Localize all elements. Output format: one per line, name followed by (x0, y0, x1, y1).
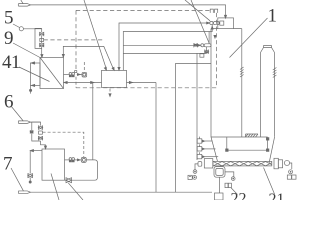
left motor circle (193, 170, 197, 174)
arrow into box A top (41, 55, 43, 58)
valve on burner 2 riser (205, 50, 209, 53)
valve V1 on vertical line (40, 32, 44, 36)
gearbox at discharge (225, 183, 231, 187)
wire box A bottom line y=82.5 (64, 82, 102, 84)
wire box C right to down leg (127, 82, 157, 84)
left recirculation line of box D (30, 150, 42, 174)
label 9 (4, 28, 14, 49)
burner 1 capsule (213, 22, 219, 25)
burner 2 circle (201, 44, 204, 47)
svg-text:9: 9 (4, 28, 14, 49)
arrow into box A bottom corner (64, 81, 67, 83)
bypass loop around valves (35, 28, 42, 48)
air drop to burner 2 (208, 32, 210, 44)
chimney left edge (260, 53, 262, 138)
instrument rounded box near box A (82, 72, 87, 77)
leader to cut label bottom b (68, 183, 83, 200)
hopper left slope (211, 137, 218, 161)
leader from top to burner 1 a (185, 0, 210, 21)
instrument rounded box at box D (81, 157, 86, 162)
pipe box A top to box C (bent) (63, 46, 114, 70)
flue passage inner duct (227, 137, 268, 150)
valve 6a (38, 126, 42, 130)
leader stub to top lens (21, 0, 23, 4)
arrow into box A top right (62, 54, 64, 57)
svg-text:6: 6 (4, 92, 14, 113)
branch line 4 to burner 2 riser (123, 52, 206, 54)
conveyor left bearing block (204, 159, 213, 168)
ash container box F (215, 193, 224, 200)
node circle 5 inlet (19, 27, 23, 31)
left gearbox pair (188, 175, 197, 179)
slag instrument 1 (197, 137, 212, 144)
leader to cut label bottom a (51, 174, 59, 201)
furnace bottom line (211, 136, 268, 138)
burner 1 inner block (220, 21, 224, 25)
arrow on box B top edge (31, 62, 34, 64)
valve on left line of box D (28, 174, 33, 183)
arrow pump to instrument (77, 159, 80, 161)
arrow into box C top from pipe (112, 67, 114, 70)
arrow riser1 into box C (118, 67, 120, 70)
leader from top edge to box C (84, 0, 106, 68)
corner block bottom right (266, 149, 269, 152)
wire valve column to box A top (41, 47, 43, 55)
nozzle lens 7 (18, 191, 30, 194)
motor circle at discharge (231, 177, 235, 181)
down leg x=154 (155, 83, 157, 193)
leader 6 (11, 106, 23, 121)
box D fuel tank (42, 149, 65, 180)
arrow on box B bottom edge (31, 84, 34, 86)
leader 5 (13, 24, 20, 28)
burner 1 circle (210, 21, 213, 24)
recirculation loop (72, 160, 98, 180)
box A heat exchanger (40, 58, 64, 89)
nozzle lens 6 (18, 121, 30, 124)
riser 1 from box C (119, 23, 209, 70)
box A diagonal (40, 58, 64, 89)
bypass loop on line 6 (32, 122, 41, 141)
right motor circle (289, 170, 293, 174)
svg-text:7: 7 (3, 154, 13, 175)
wire dashed vertical into furnace (216, 13, 218, 88)
svg-text:1: 1 (268, 6, 278, 27)
label 1 (268, 6, 278, 27)
leader 9 (13, 43, 40, 58)
wire top header y=5 (31, 5, 226, 16)
bypass valve (30, 131, 33, 134)
leader from top to burner 1 b (191, 0, 209, 44)
hatch on chimney right edge (273, 68, 277, 78)
box C (102, 70, 127, 87)
wire dashed branch y=40 (44, 39, 103, 41)
svg-text:5: 5 (4, 8, 14, 29)
chimney right edge (274, 53, 276, 137)
corner block bottom left (226, 149, 229, 152)
label 21 (269, 191, 285, 208)
conveyor trough (213, 161, 272, 166)
svg-text:41: 41 (2, 52, 20, 73)
pump on box A right line (69, 71, 77, 77)
hatch on furnace right wall (240, 67, 244, 77)
wire box D right y=160 (65, 159, 70, 161)
control box on line 6 (39, 131, 43, 134)
wire box E down (218, 177, 220, 193)
conveyor right bearing blocks (274, 158, 283, 169)
label 22 (231, 190, 247, 207)
valve V2 on vertical line (40, 43, 44, 47)
wire dashed control line y=10 (76, 9, 210, 11)
conveyor screw zigzag reverse (213, 162, 271, 166)
arrow on line 1 into burner (207, 22, 210, 24)
wire dashed below valve (75, 77, 77, 88)
wire dashed vertical x=78 (75, 10, 77, 70)
wire from lens 6 (31, 122, 41, 126)
leader 41 (19, 67, 50, 82)
conveyor left coupling capsule (198, 162, 202, 167)
arrow between pump and instrument (77, 74, 80, 76)
left motor elbow (195, 164, 198, 170)
pipe furnace left wall to bottom header (175, 64, 211, 193)
furnace upper box (218, 18, 234, 29)
wire dashed bottom control y=88.5 (76, 87, 217, 89)
wire dashed stub above instrument near box A (83, 62, 85, 72)
burner 2 capsule (204, 44, 211, 47)
label 7 (3, 154, 13, 175)
leader 21 (264, 168, 275, 195)
branch to motor cluster (225, 172, 234, 177)
label 6 (4, 92, 14, 113)
dashed drain below box C (109, 89, 111, 97)
chute right slope (269, 137, 275, 164)
arrow on that wire (129, 81, 132, 83)
wire into box D top (41, 141, 46, 147)
arrow leader into box C (104, 67, 106, 70)
chimney cap (261, 46, 275, 53)
wire from circle to valve column (23, 29, 41, 32)
valve on box D bottom line (65, 178, 72, 183)
box B (31, 63, 41, 85)
label 41 (2, 52, 20, 73)
wire junction down to fuel loop (92, 83, 94, 160)
wire between valves (41, 36, 43, 43)
arrow up on burner riser (211, 26, 213, 29)
branch line 3 to burner 2 (123, 44, 199, 46)
arrow junction y=82.5 (91, 81, 94, 83)
slag instrument 2 (197, 144, 215, 151)
nozzle lens top-left (18, 4, 30, 7)
valve on burner 2 feed line (194, 44, 198, 47)
pump at box D (69, 158, 74, 162)
dashed stub from control box (43, 132, 84, 157)
furnace main box (211, 29, 242, 137)
arrow into burner 2 (198, 44, 201, 46)
leader 1 (230, 18, 268, 58)
wire to instrument (77, 74, 82, 76)
corner block top right (266, 138, 269, 141)
riser 2 from box C (123, 25, 212, 71)
drain dot below box B (29, 85, 31, 93)
svg-text:22: 22 (231, 190, 247, 200)
right gearbox squares (287, 175, 296, 179)
svg-text:21: 21 (269, 191, 285, 200)
ash discharge box E (214, 167, 225, 178)
leader 22 (231, 188, 238, 195)
slag instrument 3 (197, 152, 218, 159)
label 5 (4, 8, 14, 29)
riser into burner 2 capsule (206, 47, 208, 54)
valve box under line 4 (200, 54, 204, 57)
right motor elbow (290, 163, 292, 169)
arrow down on dashed furnace line (214, 35, 216, 38)
damper symbol on dashed line (210, 9, 218, 13)
control box on line (40, 38, 44, 41)
bottom header line (31, 191, 212, 193)
wire pump to instrument (75, 159, 82, 161)
fuel line down to conveyor area (196, 53, 198, 160)
conveyor screw zigzag (213, 162, 271, 166)
grate hatch (246, 134, 259, 137)
arrow into furnace top box (224, 15, 226, 18)
valve 6b (38, 136, 42, 140)
arrow into box D (44, 146, 46, 149)
conveyor right coupling capsule (285, 161, 290, 166)
leader 7 (11, 168, 24, 191)
wire box A right y=74.5 (64, 74, 70, 76)
